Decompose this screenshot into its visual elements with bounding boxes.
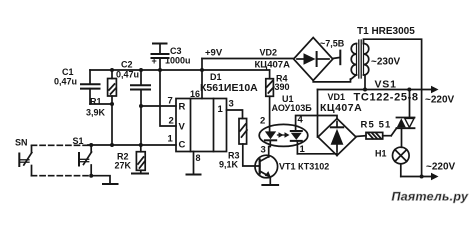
wire: VS1 mains line with arrow [318, 79, 455, 106]
svg-text:C: C [179, 140, 186, 151]
svg-text:27K: 27K [115, 161, 132, 171]
switch SN (sensor push contact) [15, 138, 32, 176]
svg-text:1: 1 [168, 134, 174, 145]
transistor VT1 KT3102 [255, 155, 329, 184]
wire: S1 bottom to ground [91, 176, 110, 184]
svg-text:3: 3 [229, 99, 234, 110]
svg-text:SN: SN [15, 138, 28, 148]
transformer T1 HRE3005 [351, 26, 415, 78]
svg-text:9,1K: 9,1K [219, 160, 239, 170]
svg-text:C2: C2 [121, 60, 133, 70]
U1 photothyristor element [291, 125, 302, 154]
svg-text:~230V: ~230V [371, 57, 401, 68]
svg-text:К561ИЕ10А: К561ИЕ10А [200, 82, 258, 94]
op IC D1 K561IE10A box [176, 72, 258, 152]
wire: T1 right winding top to right edge drop [364, 39, 422, 176]
capacitor C1 [54, 67, 100, 104]
wire: VD1 right corner to R5 [356, 135, 366, 138]
svg-text:1000u: 1000u [165, 56, 191, 66]
wire: dashed link SN to S1 (top) [32, 144, 89, 146]
svg-text:390: 390 [275, 82, 290, 92]
svg-text:3,9K: 3,9K [86, 108, 106, 118]
capacitor C2 [116, 60, 150, 146]
svg-text:КЦ407А: КЦ407А [255, 60, 291, 71]
svg-text:VD1: VD1 [328, 92, 346, 102]
wire: U1 pin 3 down to VT1 collector [268, 147, 270, 158]
node: C3 bottom on +9V rail [158, 68, 162, 72]
node: S1 top junction [89, 143, 93, 147]
svg-text:0,47u: 0,47u [116, 70, 139, 80]
svg-text:VS1: VS1 [375, 79, 397, 91]
resistor R1 3,9K [86, 70, 116, 145]
triac VS1 [391, 90, 414, 148]
node: right edge drop on bottom line [420, 175, 424, 179]
ground below IC pin 8 [187, 174, 201, 176]
wire: U1 pin 4 up and right to VD1 top corner [296, 116, 337, 126]
node: S1 bottom junction [89, 174, 93, 178]
ground below VT1 emitter [262, 184, 278, 186]
U1 LED element [265, 131, 276, 146]
svg-text:АОУ103Б: АОУ103Б [272, 103, 313, 113]
lamp H1 [375, 147, 409, 164]
svg-text:C1: C1 [62, 67, 74, 77]
ground below R2 [132, 173, 148, 175]
wire: R5 to triac gate [383, 135, 392, 137]
wire: C2 bottom to IC pin 7 (R) [141, 105, 176, 107]
svg-text:D1: D1 [210, 72, 222, 82]
svg-text:VT1 КТ3102: VT1 КТ3102 [279, 162, 329, 172]
diode bridge VD2 KTs407A [255, 38, 333, 81]
svg-text:T1 HRE3005: T1 HRE3005 [357, 26, 415, 37]
capacitor C3 1000u (electrolytic) [152, 44, 191, 71]
wire: branch from rail down to IC pin 2 (V) [160, 70, 176, 126]
ground below S1 [103, 183, 118, 185]
wire: VS1 line down to VD1 left corner [317, 90, 319, 138]
resistor R5 51 [361, 120, 392, 140]
svg-text:S1: S1 [73, 136, 84, 146]
wire: C1 bottom to R1 vertical [90, 103, 112, 105]
wire: VD2 bottom corner to T1 left winding bottom [313, 79, 350, 82]
node: +9V rail / pin16 junction [200, 68, 204, 72]
+9V rail label and wire to VD2 [202, 48, 294, 99]
resistor R3 9,1K [219, 119, 247, 170]
node: T1 bottom on VS1 line [363, 88, 367, 92]
svg-text:VD2: VD2 [260, 48, 278, 58]
U1 light coupling arrows [278, 132, 290, 138]
wire: IC pin 3 output to R3 [227, 99, 243, 119]
node: C1/R1 junction [110, 102, 114, 106]
svg-text:C3: C3 [170, 46, 182, 56]
wire: S1 top to IC pin 1 (C) [88, 144, 176, 146]
wire: bottom output line with arrow [401, 162, 456, 181]
wire: VD2 right corner to transformer terminal bar [320, 39, 345, 65]
node: R1 top on +9V rail [110, 68, 114, 72]
svg-text:2: 2 [260, 116, 265, 127]
svg-text:КЦ407А: КЦ407А [320, 102, 362, 114]
diode bridge VD1 KTs407A [318, 92, 362, 156]
svg-text:+: + [152, 56, 157, 66]
wire: +9V supply node horizontal rail [90, 69, 270, 71]
wire: R4 to optocoupler LED (pin 2) [269, 96, 271, 131]
optocoupler U1 AOU103B [259, 94, 312, 156]
node: R1 bottom junction [110, 143, 114, 147]
svg-text:Паятель.ру: Паятель.ру [392, 190, 469, 204]
wire: IC pin 8 to ground [193, 152, 195, 175]
node: C2 bottom / IC pin7 wire junction [139, 104, 143, 108]
svg-text:8: 8 [196, 153, 201, 163]
node: triac top on VS1 line [407, 88, 411, 92]
resistor R2 27K [115, 145, 146, 173]
svg-text:R1: R1 [90, 97, 102, 107]
svg-text:V: V [179, 122, 186, 133]
svg-text:~7,5В: ~7,5В [320, 39, 345, 49]
wire: R3 bottom to VT1 base [243, 144, 260, 166]
svg-text:1: 1 [218, 104, 224, 115]
switch S1 (sensor push contact) [73, 136, 92, 176]
wire: T1 right winding bottom to VS1 line [364, 75, 366, 90]
resistor R4 390 [266, 70, 290, 96]
wire: U1 pin 1 to VD1 bottom corner [297, 154, 337, 156]
svg-text:0,47u: 0,47u [54, 77, 77, 87]
svg-text:+9V: +9V [205, 48, 223, 59]
svg-text:3: 3 [261, 145, 266, 156]
svg-text:H1: H1 [375, 149, 387, 159]
svg-text:16: 16 [190, 89, 200, 99]
svg-text:R5 51: R5 51 [361, 120, 392, 131]
svg-text:~220V: ~220V [426, 162, 456, 173]
svg-text:7: 7 [168, 96, 173, 107]
svg-text:R: R [179, 102, 186, 113]
wire: dashed link SN to S1 (bottom) [32, 175, 89, 177]
svg-text:~220V: ~220V [425, 95, 455, 106]
node: C2/R2 junction [139, 143, 143, 147]
svg-text:2: 2 [169, 116, 174, 127]
node: C2 top on +9V rail [139, 68, 143, 72]
